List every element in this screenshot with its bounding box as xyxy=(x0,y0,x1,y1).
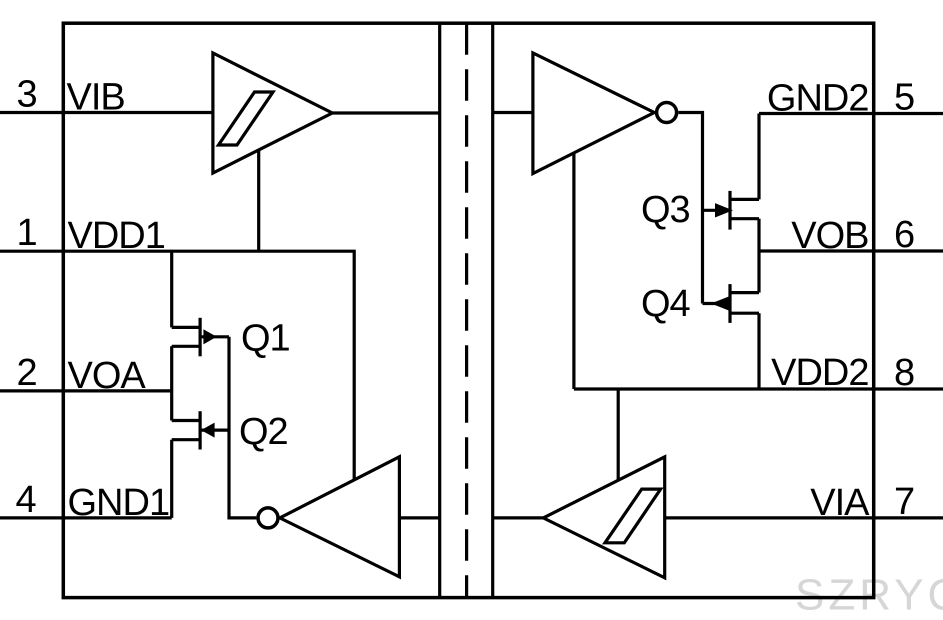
svg-text:7: 7 xyxy=(894,481,915,523)
pin 1 lead VDD1 and drop to inverter A1 xyxy=(0,251,354,480)
isolation barrier left line xyxy=(438,23,441,597)
wire A2 output to gate bus xyxy=(678,113,702,304)
isolation barrier dashed line xyxy=(465,23,468,597)
Schmitt buffer A3 xyxy=(543,457,664,578)
IC outline xyxy=(63,23,873,597)
svg-text:SZRYC: SZRYC xyxy=(795,571,943,620)
svg-text:6: 6 xyxy=(894,214,915,256)
wire Q3 to VOB xyxy=(757,219,760,251)
inverter A2 bubble xyxy=(657,103,677,123)
transistor Q3 xyxy=(703,191,760,230)
svg-text:Q3: Q3 xyxy=(641,189,690,231)
svg-text:VIB: VIB xyxy=(67,77,125,119)
wire GND2 to Q3 xyxy=(757,114,760,200)
wire Q2 to GND1 xyxy=(170,440,173,518)
svg-text:3: 3 xyxy=(17,74,38,116)
wire U1 bottom to VDD1 xyxy=(257,151,260,252)
svg-text:5: 5 xyxy=(894,77,915,119)
wire U1 output to barrier xyxy=(332,111,439,114)
svg-text:Q4: Q4 xyxy=(641,283,691,325)
svg-text:VOB: VOB xyxy=(791,215,868,257)
svg-text:VDD1: VDD1 xyxy=(68,215,165,257)
svg-text:GND2: GND2 xyxy=(767,78,869,120)
pin 6 lead VOB xyxy=(759,249,943,252)
svg-text:2: 2 xyxy=(17,352,38,394)
pin 8 lead VDD2 xyxy=(574,387,943,390)
inverter A2 xyxy=(533,53,654,174)
pin 3 lead VIB xyxy=(0,111,213,114)
svg-text:GND1: GND1 xyxy=(68,482,170,524)
A3 hysteresis symbol xyxy=(605,489,661,543)
wire A3 output to barrier xyxy=(493,516,544,519)
svg-text:Q2: Q2 xyxy=(239,411,288,453)
wire VOB to Q4 xyxy=(757,251,760,293)
transistor Q4 xyxy=(703,284,760,323)
wire barrier to inverter A2 input xyxy=(493,111,533,114)
wire VDD1 to Q1 xyxy=(170,251,173,327)
pin 5 lead GND2 xyxy=(759,112,943,115)
wire A2 bottom to VDD2 xyxy=(572,153,575,389)
Schmitt buffer U1 xyxy=(213,53,332,173)
wire gate bus to inverter A1 output xyxy=(229,337,256,518)
pin 7 lead VIA xyxy=(665,516,943,519)
svg-text:VOA: VOA xyxy=(68,355,147,397)
svg-text:VIA: VIA xyxy=(810,482,870,524)
pin 4 lead GND1 xyxy=(0,516,172,519)
pin 2 lead VOA xyxy=(0,389,172,392)
wire Q4 to VDD2 xyxy=(757,313,760,389)
svg-text:VDD2: VDD2 xyxy=(771,352,868,394)
wire VDD2 to Schmitt A3 xyxy=(617,389,620,481)
svg-text:1: 1 xyxy=(17,212,38,254)
transistor Q2 xyxy=(172,411,229,449)
inverter A1 xyxy=(280,457,400,577)
U1 hysteresis symbol xyxy=(219,92,274,145)
svg-text:4: 4 xyxy=(16,479,37,521)
inverter A1 bubble xyxy=(258,508,278,528)
svg-text:Q1: Q1 xyxy=(241,318,290,360)
wire A1 input from barrier xyxy=(399,516,439,519)
transistor Q1 xyxy=(172,318,229,357)
wire Q1 to VOA node to Q2 xyxy=(170,346,173,420)
svg-text:8: 8 xyxy=(894,352,915,394)
isolation barrier right line xyxy=(491,23,494,597)
